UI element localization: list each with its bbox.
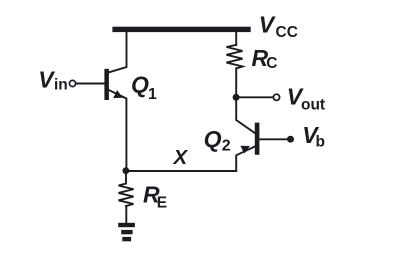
svg-text:X: X	[173, 146, 189, 169]
Q1 emitter arrow (NPN)	[113, 90, 123, 98]
label RC	[252, 45, 278, 72]
svg-text:V: V	[259, 12, 276, 38]
svg-text:out: out	[301, 96, 325, 113]
wire rail to RC	[235, 32, 237, 45]
resistor RC	[227, 45, 243, 69]
wire Q2 emitter to node X	[236, 147, 255, 172]
label VCC	[259, 12, 298, 42]
wire Q2 base to Vb	[259, 138, 287, 140]
svg-text:b: b	[316, 133, 325, 150]
label Vout	[287, 83, 325, 113]
svg-text:CC: CC	[276, 24, 298, 41]
svg-text:C: C	[266, 55, 277, 72]
svg-text:Q: Q	[204, 126, 222, 152]
wire Vin terminal to Q1 base	[76, 83, 105, 85]
wire RE to ground	[125, 206, 127, 223]
ground	[118, 223, 135, 241]
wire node X to RE	[125, 171, 127, 184]
svg-text:1: 1	[148, 86, 157, 103]
label Vb	[302, 122, 325, 151]
svg-text:V: V	[38, 67, 55, 93]
wire Q1 emitter	[109, 90, 126, 170]
wire Vout node to terminal	[236, 96, 273, 98]
svg-text:E: E	[157, 194, 167, 211]
label Q1	[131, 72, 157, 103]
svg-text:in: in	[54, 76, 68, 93]
terminal Vin	[69, 80, 75, 86]
terminal Vout	[273, 94, 279, 100]
label Vin	[38, 67, 68, 94]
terminal Vb dot	[287, 136, 294, 143]
svg-text:2: 2	[222, 137, 231, 154]
transistor Q2 base bar	[255, 123, 260, 155]
node Vout junction	[233, 94, 240, 101]
transistor Q1 base bar	[104, 69, 109, 100]
wire node X horizontal	[126, 170, 236, 172]
wire RC to Vout node	[235, 68, 237, 97]
wire Vout node to Q2 collector	[236, 97, 255, 133]
Q2 emitter arrow (PNP)	[240, 146, 250, 154]
svg-text:Q: Q	[131, 72, 149, 98]
label RE	[143, 181, 167, 211]
resistor RE	[119, 184, 134, 207]
label Q2	[204, 126, 231, 154]
VCC supply rail	[112, 27, 250, 32]
wire rail to Q1 collector	[109, 32, 127, 72]
node X junction	[123, 167, 130, 174]
